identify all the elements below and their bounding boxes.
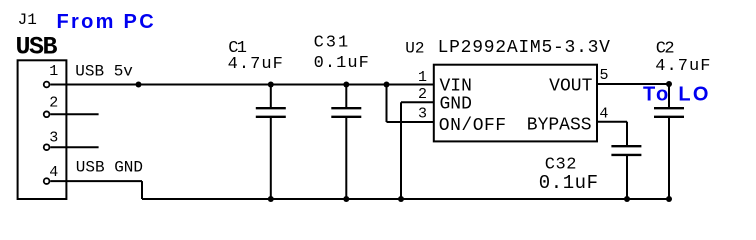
svg-text:4: 4 (49, 164, 58, 181)
capacitor C1 bottom lead (270, 117, 272, 199)
svg-text:J1: J1 (18, 11, 37, 29)
wire ON/OFF branch horizontal (387, 121, 434, 123)
pin circle J1-4 (44, 178, 50, 184)
wire USB 5v rail (66, 84, 433, 86)
wire pin1 stub (50, 84, 66, 86)
svg-text:3: 3 (49, 130, 58, 147)
capacitor C31 top lead (345, 85, 347, 109)
connector J1 body (18, 60, 67, 199)
wire U2 GND drop (400, 102, 402, 199)
pin circle J1-1 (44, 82, 50, 88)
capacitor C31 plates (331, 107, 361, 109)
svg-text:ON/OFF: ON/OFF (439, 116, 507, 136)
capacitor C2 bottom lead (668, 117, 670, 199)
capacitor C2 top lead (668, 84, 670, 108)
junction dot U2 GND bottom (398, 196, 404, 202)
junction dot VIN branch (384, 82, 390, 88)
wire pin4 USB GND (50, 180, 142, 182)
wire VOUT pin5 (597, 83, 669, 85)
capacitor C1 plates (256, 107, 286, 109)
svg-text:0.1uF: 0.1uF (314, 54, 370, 73)
pin circle J1-3 (44, 144, 50, 150)
svg-text:4: 4 (599, 106, 608, 123)
wire pin2 stub (50, 113, 98, 115)
svg-text:USB GND: USB GND (76, 158, 143, 176)
svg-text:5: 5 (600, 67, 609, 84)
svg-text:BYPASS: BYPASS (527, 115, 592, 135)
svg-text:To LO: To LO (643, 83, 711, 105)
svg-text:4.7uF: 4.7uF (655, 57, 711, 76)
svg-text:3: 3 (418, 106, 427, 123)
svg-text:USB: USB (16, 33, 58, 62)
capacitor C1 top lead (270, 85, 272, 109)
wire U2 GND pin horizontal (401, 101, 434, 103)
svg-text:USB 5v: USB 5v (75, 62, 133, 80)
junction dot C32 bottom (624, 196, 630, 202)
capacitor C32 bottom lead (626, 155, 628, 199)
svg-text:From PC: From PC (57, 11, 156, 33)
capacitor C31 bottom lead (345, 117, 347, 199)
svg-text:1: 1 (49, 63, 58, 80)
svg-text:U2: U2 (405, 39, 424, 57)
svg-text:4.7uF: 4.7uF (228, 55, 284, 74)
svg-text:GND: GND (440, 94, 472, 114)
wire GND drop (141, 181, 143, 199)
svg-text:VOUT: VOUT (549, 77, 592, 97)
svg-text:C31: C31 (314, 33, 351, 52)
svg-text:0.1uF: 0.1uF (539, 172, 599, 194)
junction dot C2 bottom (666, 196, 672, 202)
junction dot C31 top (343, 82, 349, 88)
svg-text:LP2992AIM5-3.3V: LP2992AIM5-3.3V (438, 38, 611, 58)
svg-text:2: 2 (418, 86, 427, 103)
wire BYPASS pin4 (597, 121, 627, 123)
wire bottom GND rail (142, 198, 669, 200)
junction dot 5v label (136, 82, 142, 88)
svg-text:C2: C2 (656, 40, 674, 59)
capacitor C32 plates (611, 145, 641, 147)
op-amp U2 body (434, 65, 597, 142)
pin circle J1-2 (44, 111, 50, 117)
capacitor C2 plates (654, 107, 684, 109)
junction dot C31 bottom (343, 196, 349, 202)
svg-text:1: 1 (418, 69, 427, 86)
junction dot C1 bottom (268, 196, 274, 202)
wire VIN to ON/OFF branch vertical (386, 85, 388, 123)
wire BYPASS drop (626, 122, 628, 147)
svg-text:2: 2 (49, 94, 58, 111)
junction dot C2 top (666, 81, 672, 87)
wire pin3 stub (50, 146, 98, 148)
junction dot C1 top (268, 82, 274, 88)
